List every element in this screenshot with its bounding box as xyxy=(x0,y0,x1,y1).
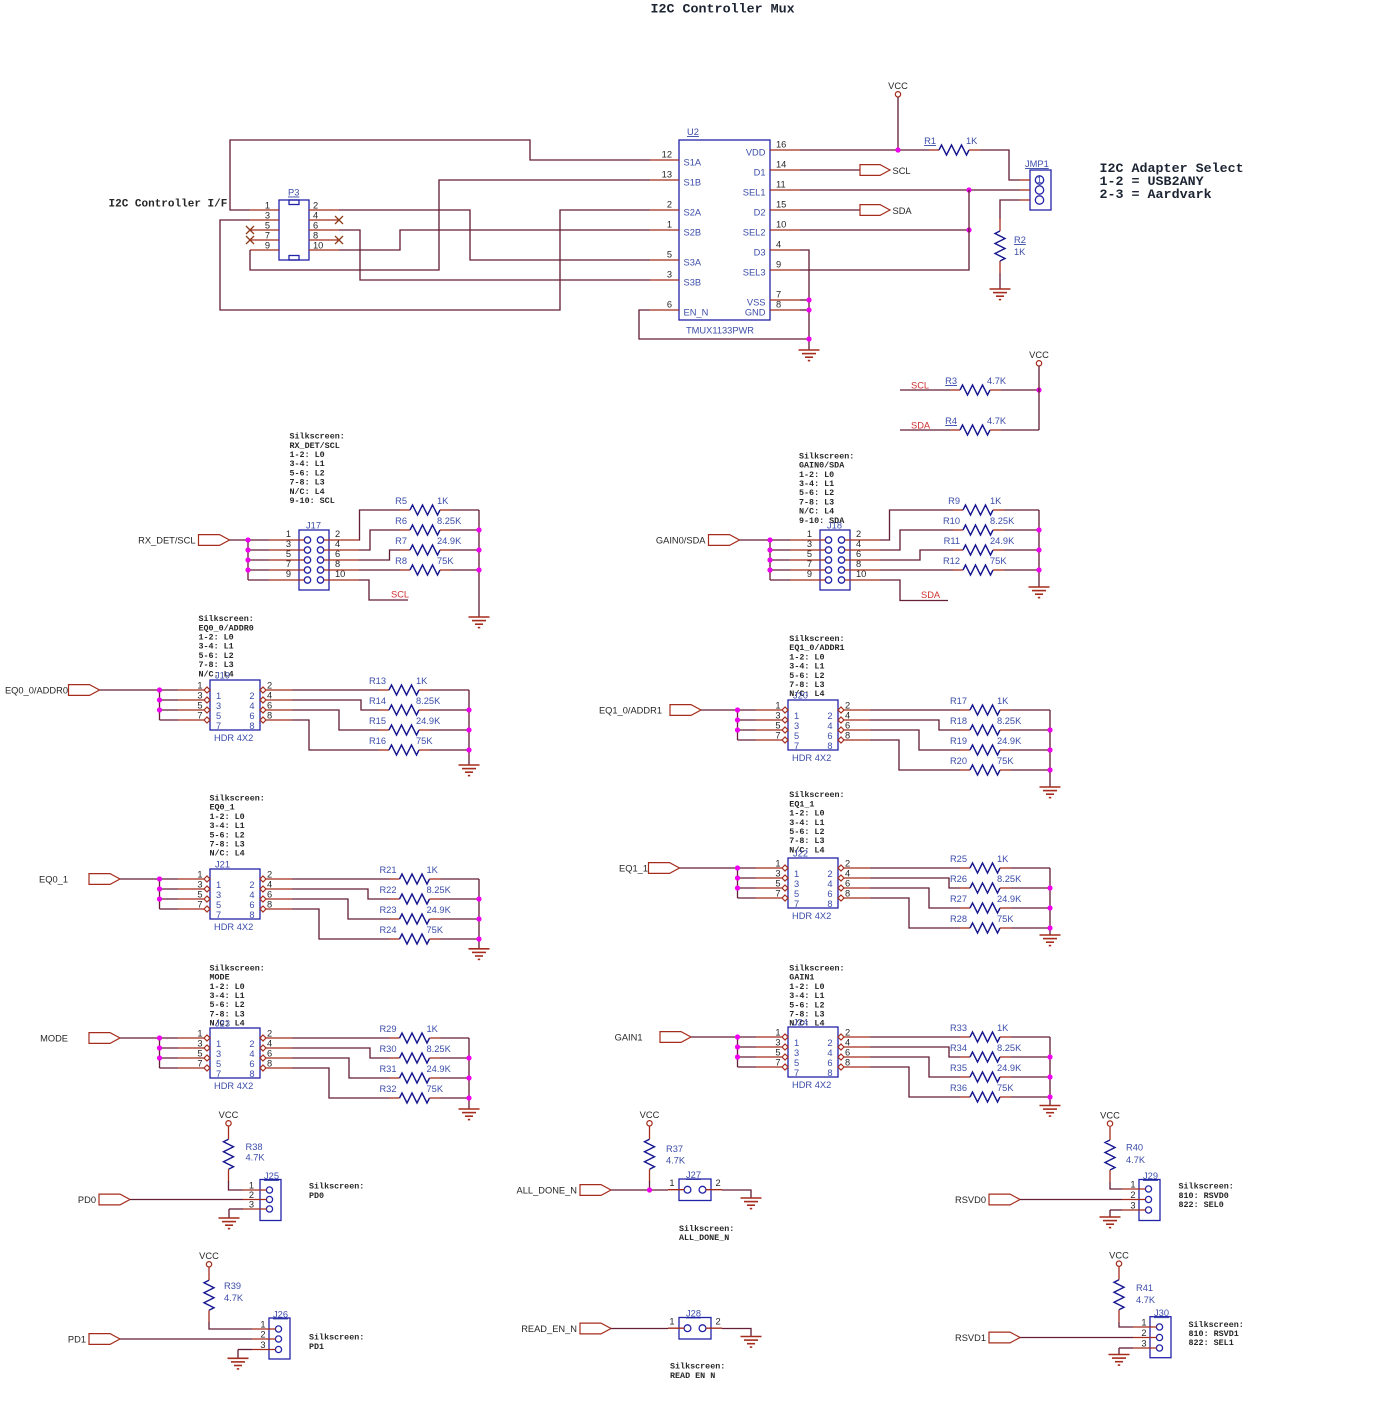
wire to J17.5 xyxy=(248,559,269,561)
svg-text:2: 2 xyxy=(249,880,254,890)
wire J19 resistor bus xyxy=(468,690,470,765)
svg-text:24.9K: 24.9K xyxy=(437,536,462,546)
pin stub J19.3 xyxy=(178,699,204,701)
wire J22.4 to R26 xyxy=(870,878,960,888)
wire J24 resistor bus xyxy=(1049,1037,1051,1106)
svg-text:VSS: VSS xyxy=(747,298,766,308)
wire R32 to bus xyxy=(441,1097,470,1099)
wire to J17.1 xyxy=(248,539,269,541)
pin stub U2.2 S2A xyxy=(650,209,679,211)
wire J18.10 SDA xyxy=(880,580,948,601)
svg-text:7: 7 xyxy=(197,711,202,721)
wire J23.6 to R31 xyxy=(292,1058,390,1078)
resistor R41 4.7K xyxy=(1114,1267,1156,1322)
connector J20 (HDR 4X2) xyxy=(775,691,850,764)
svg-text:R19: R19 xyxy=(950,736,967,746)
junction R7 xyxy=(476,547,481,552)
resistor R25 1K xyxy=(950,854,1011,873)
svg-text:EN_N: EN_N xyxy=(684,308,709,318)
svg-text:PD0: PD0 xyxy=(78,1195,96,1205)
svg-text:4: 4 xyxy=(267,1039,272,1049)
connector J26 (3-pin header) xyxy=(260,1310,290,1360)
svg-text:R14: R14 xyxy=(369,696,386,706)
svg-text:5: 5 xyxy=(197,701,202,711)
svg-text:SDA: SDA xyxy=(893,206,913,216)
svg-text:4: 4 xyxy=(845,1038,850,1048)
svg-text:7: 7 xyxy=(776,290,781,300)
power VCC R38 xyxy=(219,1110,239,1126)
svg-text:4: 4 xyxy=(267,880,272,890)
svg-text:6: 6 xyxy=(845,721,850,731)
junction VSS xyxy=(806,297,811,302)
wire VCC to VDD xyxy=(897,97,899,150)
pin stub J23.5 xyxy=(178,1057,204,1059)
svg-text:1K: 1K xyxy=(416,676,428,686)
wire R13 to bus xyxy=(430,689,469,691)
pin stub J21.3 xyxy=(178,888,204,890)
connector J24 (HDR 4X2) xyxy=(775,1018,850,1091)
svg-text:24.9K: 24.9K xyxy=(416,716,441,726)
wire to J21.7 xyxy=(160,908,179,910)
net flag SDA xyxy=(860,205,912,216)
wire to J22.7 xyxy=(738,897,757,899)
svg-text:24.9K: 24.9K xyxy=(997,894,1022,904)
resistor R22 8.25K xyxy=(379,885,451,904)
svg-text:1: 1 xyxy=(669,1178,674,1188)
pin stub J22.6 xyxy=(844,887,870,889)
junction J24 left 1 xyxy=(735,1034,740,1039)
port RSVD1 xyxy=(955,1332,1020,1343)
svg-text:13: 13 xyxy=(662,170,672,180)
junction R11 xyxy=(1036,547,1041,552)
silkscreen note J25 xyxy=(309,1182,364,1201)
wire J21 left bus xyxy=(159,879,161,909)
port GAIN1 xyxy=(615,1032,691,1043)
resistor R21 1K xyxy=(379,865,440,884)
svg-text:1K: 1K xyxy=(990,496,1002,506)
pin stub J19.4 xyxy=(266,699,292,701)
svg-text:MODE: MODE xyxy=(40,1034,68,1044)
svg-text:1: 1 xyxy=(807,529,812,539)
wire R26 to bus xyxy=(1011,887,1050,889)
svg-text:7: 7 xyxy=(775,1058,780,1068)
wire J21.4 to R22 xyxy=(292,889,390,899)
svg-text:1: 1 xyxy=(197,681,202,691)
junction J22 left 3 xyxy=(735,885,740,890)
svg-text:8.25K: 8.25K xyxy=(997,874,1022,884)
svg-text:1K: 1K xyxy=(427,865,439,875)
junction J21 left 3 xyxy=(157,896,162,901)
svg-text:8: 8 xyxy=(845,889,850,899)
pin stub J21.1 xyxy=(178,878,204,880)
svg-text:2: 2 xyxy=(716,1178,721,1188)
svg-text:I2C Controller Mux: I2C Controller Mux xyxy=(651,3,795,18)
resistor R1 1K xyxy=(924,136,980,155)
port PD1 xyxy=(68,1334,120,1345)
wire U2.D1 to SCL flag xyxy=(800,169,860,171)
pin stub P3.6 xyxy=(309,229,339,231)
wire J20.8 to R20 xyxy=(870,740,960,770)
pin stub J21.5 xyxy=(178,898,204,900)
ground J30 xyxy=(1109,1355,1130,1366)
wire SCL net xyxy=(900,389,950,391)
svg-text:2: 2 xyxy=(1130,1190,1135,1200)
port EQ1_1 xyxy=(619,863,679,874)
junction R36 xyxy=(1047,1094,1052,1099)
pin stub JMP1.3 xyxy=(1020,199,1030,201)
pin stub J27.2 xyxy=(706,1189,722,1191)
silkscreen note J29 xyxy=(1179,1182,1234,1210)
svg-text:8.25K: 8.25K xyxy=(997,1043,1022,1053)
svg-text:EQ0_1: EQ0_1 xyxy=(39,875,68,885)
pin stub J21.7 xyxy=(178,908,204,910)
wire to J18.3 xyxy=(770,549,790,551)
svg-text:5: 5 xyxy=(775,721,780,731)
svg-text:EQ1_0/ADDR1: EQ1_0/ADDR1 xyxy=(599,706,662,716)
wire J27.2 to ground xyxy=(722,1190,751,1198)
pin stub J24.8 xyxy=(844,1066,870,1068)
resistor R38 4.7K xyxy=(224,1126,266,1181)
wire RSVD1 to J30.2 xyxy=(1020,1337,1133,1339)
resistor R15 24.9K xyxy=(369,716,441,735)
pin stub J29.1 xyxy=(1122,1188,1146,1190)
svg-text:R16: R16 xyxy=(369,736,386,746)
junction J23 left 2 xyxy=(157,1045,162,1050)
wire J24.6 to R35 xyxy=(870,1057,960,1077)
connector J22 (HDR 4X2) xyxy=(775,849,850,922)
svg-text:1: 1 xyxy=(216,880,221,890)
pin stub P3.1 xyxy=(250,209,279,211)
svg-text:JMP1: JMP1 xyxy=(1025,159,1049,169)
resistor R9 1K xyxy=(948,496,1004,515)
pin stub J30.1 xyxy=(1133,1326,1157,1328)
power VCC U2 xyxy=(888,81,908,97)
svg-text:5: 5 xyxy=(216,711,221,721)
svg-text:R6: R6 xyxy=(395,516,407,526)
svg-text:1: 1 xyxy=(775,859,780,869)
svg-text:RSVD0: RSVD0 xyxy=(955,1195,986,1205)
silkscreen note J23 xyxy=(210,963,265,1028)
junction J24 left 2 xyxy=(735,1044,740,1049)
svg-text:R23: R23 xyxy=(379,905,396,915)
svg-text:3: 3 xyxy=(216,890,221,900)
pin stub J30.3 xyxy=(1133,1347,1157,1349)
svg-text:8: 8 xyxy=(845,731,850,741)
svg-text:R37: R37 xyxy=(666,1144,683,1154)
svg-text:8: 8 xyxy=(249,1069,254,1079)
wire J21.6 to R23 xyxy=(292,899,390,919)
wire to J20.5 xyxy=(738,729,757,731)
wire R21 to bus xyxy=(441,878,480,880)
svg-text:9: 9 xyxy=(265,241,270,251)
wire to J24.1 xyxy=(738,1036,757,1038)
wire to J18.5 xyxy=(770,559,790,561)
wire R10 to bus xyxy=(1004,529,1039,531)
wire RSVD0 to J29.2 xyxy=(1020,1199,1122,1201)
svg-text:R7: R7 xyxy=(395,536,407,546)
port RX_DET/SCL xyxy=(138,535,229,546)
svg-text:7: 7 xyxy=(216,721,221,731)
wire JMP1.3 to R2 xyxy=(1000,200,1020,219)
pin stub J20.7 xyxy=(756,739,782,741)
junction J20 left 3 xyxy=(735,727,740,732)
pin stub J23.3 xyxy=(178,1047,204,1049)
pin stub U2.9 SEL3 xyxy=(770,269,800,271)
svg-text:1: 1 xyxy=(265,201,270,211)
wire U2.VDD to R1 xyxy=(800,149,929,151)
wire to J21.5 xyxy=(160,898,179,900)
svg-text:VCC: VCC xyxy=(199,1251,219,1261)
connector J17 (5x2 header) xyxy=(286,521,346,591)
pin stub J19.5 xyxy=(178,709,204,711)
pin stub J17.1 xyxy=(269,539,304,541)
wire R8 to bus xyxy=(451,569,479,571)
junction SEL1 xyxy=(966,187,971,192)
wire R29 to bus xyxy=(441,1037,470,1039)
junction GND xyxy=(806,307,811,312)
junction J18 left 2 xyxy=(767,547,772,552)
resistor R18 8.25K xyxy=(950,716,1022,735)
svg-text:2: 2 xyxy=(1141,1328,1146,1338)
svg-text:2: 2 xyxy=(667,200,672,210)
svg-text:R24: R24 xyxy=(379,925,396,935)
svg-text:1: 1 xyxy=(669,1317,674,1327)
ground J25 xyxy=(219,1218,240,1229)
svg-text:VCC: VCC xyxy=(1109,1250,1129,1260)
svg-text:5: 5 xyxy=(775,879,780,889)
silkscreen note J22 xyxy=(789,790,844,855)
pin stub J17.6 xyxy=(324,559,359,561)
wire R11 to bus xyxy=(1004,549,1039,551)
svg-text:24.9K: 24.9K xyxy=(427,1064,452,1074)
connector J29 (3-pin header) xyxy=(1130,1171,1160,1221)
wire to J21.3 xyxy=(160,888,179,890)
silkscreen note J30 xyxy=(1189,1320,1244,1348)
pin stub J23.4 xyxy=(266,1047,292,1049)
pin stub J24.2 xyxy=(844,1036,870,1038)
power VCC R3/R4 xyxy=(1029,350,1049,366)
svg-text:HDR 4X2: HDR 4X2 xyxy=(214,922,253,932)
svg-text:R32: R32 xyxy=(379,1084,396,1094)
ground J26 xyxy=(228,1358,249,1369)
pin stub J18.2 xyxy=(845,539,880,541)
junction VDD xyxy=(895,147,900,152)
pin stub J28.1 xyxy=(668,1327,684,1329)
svg-text:5: 5 xyxy=(667,250,672,260)
pin stub JMP1.2 xyxy=(1020,189,1030,191)
wire J22 resistor bus xyxy=(1049,868,1051,935)
svg-text:RX_DET/SCL: RX_DET/SCL xyxy=(138,536,195,546)
resistor R5 1K xyxy=(395,496,451,515)
svg-text:1: 1 xyxy=(1037,175,1042,185)
wire J30.3 to ground xyxy=(1119,1347,1133,1349)
wire R35 to bus xyxy=(1011,1076,1050,1078)
resistor R23 24.9K xyxy=(379,905,451,924)
junction J23 left 1 xyxy=(157,1035,162,1040)
svg-text:6: 6 xyxy=(249,900,254,910)
wire J17.6 to R7 xyxy=(359,550,400,560)
svg-text:R39: R39 xyxy=(224,1281,241,1291)
wire U2.SEL3 to SEL net xyxy=(800,190,969,270)
wire J21.2 to R21 xyxy=(292,878,390,880)
pin stub J24.6 xyxy=(844,1056,870,1058)
junction R16 xyxy=(466,747,471,752)
power VCC R41 xyxy=(1109,1250,1129,1266)
svg-text:R21: R21 xyxy=(379,865,396,875)
pin stub J29.3 xyxy=(1122,1209,1146,1211)
resistor R8 75K xyxy=(395,556,454,575)
wire J17.10 SCL xyxy=(359,580,408,600)
wire R19 to bus xyxy=(1011,749,1050,751)
svg-text:PD1: PD1 xyxy=(68,1335,86,1345)
svg-text:S3A: S3A xyxy=(684,258,702,268)
pin stub U2.10 SEL2 xyxy=(770,229,800,231)
svg-text:6: 6 xyxy=(267,1049,272,1059)
wire EQ0_0/ADDR0 to J19 xyxy=(100,689,160,691)
pin stub J20.1 xyxy=(756,709,782,711)
wire EQ1_0/ADDR1 to J20 xyxy=(701,709,738,711)
svg-text:8.25K: 8.25K xyxy=(997,716,1022,726)
connector JMP1 xyxy=(1025,159,1051,210)
wire R18 to bus xyxy=(1011,729,1050,731)
svg-text:9-10: SCL: 9-10: SCL xyxy=(290,496,335,506)
junction R24 xyxy=(476,936,481,941)
wire RX_DET/SCL to J17 xyxy=(230,539,249,541)
svg-text:R27: R27 xyxy=(950,894,967,904)
no-connect X P3.8 xyxy=(335,236,343,244)
silkscreen note J24 xyxy=(789,964,844,1029)
svg-text:4: 4 xyxy=(827,1048,832,1058)
svg-text:7: 7 xyxy=(216,1069,221,1079)
svg-text:1: 1 xyxy=(667,220,672,230)
wire J18.4 to R10 xyxy=(880,530,953,550)
svg-text:GND: GND xyxy=(745,308,766,318)
svg-text:1K: 1K xyxy=(427,1024,439,1034)
resistor R40 4.7K xyxy=(1105,1127,1146,1182)
junction EN_N xyxy=(806,336,811,341)
wire to J23.5 xyxy=(160,1057,179,1059)
wire to J17.7 xyxy=(248,569,269,571)
svg-text:1: 1 xyxy=(249,1181,254,1191)
svg-text:5: 5 xyxy=(775,1048,780,1058)
svg-text:6: 6 xyxy=(827,731,832,741)
ground J21 bus xyxy=(469,949,490,960)
svg-text:R30: R30 xyxy=(379,1044,396,1054)
silkscreen note J28 xyxy=(670,1362,725,1381)
svg-text:4.7K: 4.7K xyxy=(246,1153,266,1163)
svg-text:3: 3 xyxy=(216,701,221,711)
wire J26.3 ground drop xyxy=(237,1350,239,1359)
wire R4 to VCC xyxy=(1001,429,1039,431)
no-connect X P3.5 xyxy=(246,226,254,234)
wire R2 to ground xyxy=(999,273,1001,289)
svg-text:R28: R28 xyxy=(950,914,967,924)
svg-text:RSVD1: RSVD1 xyxy=(955,1333,986,1343)
wire to J24.7 xyxy=(738,1066,757,1068)
pin stub J24.3 xyxy=(756,1046,782,1048)
svg-text:1K: 1K xyxy=(437,496,449,506)
svg-text:2: 2 xyxy=(260,1330,265,1340)
svg-text:1K: 1K xyxy=(966,136,978,146)
svg-text:11: 11 xyxy=(776,180,786,190)
pin stub U2.13 S1B xyxy=(650,179,679,181)
junction R27 xyxy=(1047,905,1052,910)
wire J17.4 to R6 xyxy=(359,530,400,550)
pin stub J19.6 xyxy=(266,709,292,711)
silkscreen note J21 xyxy=(210,794,265,859)
svg-text:1: 1 xyxy=(1141,1318,1146,1328)
pin stub J18.8 xyxy=(845,569,880,571)
resistor R36 75K xyxy=(950,1083,1014,1102)
wire R23 to bus xyxy=(441,918,480,920)
wire READ_EN_N to J28.1 xyxy=(611,1328,668,1330)
wire J18.8 to R12 xyxy=(880,569,953,571)
port EQ1_0/ADDR1 xyxy=(599,705,701,716)
svg-text:4: 4 xyxy=(313,211,318,221)
port MODE xyxy=(40,1033,120,1044)
svg-text:8.25K: 8.25K xyxy=(427,885,452,895)
pin stub J17.3 xyxy=(269,549,304,551)
svg-text:R1: R1 xyxy=(924,136,936,146)
junction R18 xyxy=(1047,727,1052,732)
pin stub J21.6 xyxy=(266,898,292,900)
svg-text:4: 4 xyxy=(249,1049,254,1059)
svg-text:3: 3 xyxy=(1130,1201,1135,1211)
wire J24.4 to R34 xyxy=(870,1047,960,1057)
wire R25 to bus xyxy=(1011,867,1050,869)
resistor R6 8.25K xyxy=(395,516,462,535)
resistor R39 4.7K xyxy=(204,1267,244,1322)
resistor R27 24.9K xyxy=(950,894,1022,913)
svg-text:2: 2 xyxy=(856,529,861,539)
svg-text:24.9K: 24.9K xyxy=(997,1063,1022,1073)
svg-text:3: 3 xyxy=(197,880,202,890)
ground J17 bus xyxy=(469,617,490,628)
pin stub J17.4 xyxy=(324,549,359,551)
pin stub J26.2 xyxy=(252,1338,276,1340)
svg-text:7: 7 xyxy=(794,899,799,909)
wire to J23.3 xyxy=(160,1047,179,1049)
svg-text:8.25K: 8.25K xyxy=(416,696,441,706)
svg-text:2: 2 xyxy=(335,529,340,539)
svg-text:16: 16 xyxy=(776,140,786,150)
svg-text:4.7K: 4.7K xyxy=(1126,1155,1146,1165)
pin stub P3.4 xyxy=(309,219,339,221)
svg-text:SEL1: SEL1 xyxy=(743,188,766,198)
svg-text:HDR 4X2: HDR 4X2 xyxy=(792,1080,831,1090)
svg-text:1: 1 xyxy=(286,529,291,539)
pin stub J20.5 xyxy=(756,729,782,731)
svg-text:8: 8 xyxy=(249,721,254,731)
svg-text:14: 14 xyxy=(776,160,786,170)
svg-text:R35: R35 xyxy=(950,1063,967,1073)
connector P3 xyxy=(265,188,324,261)
pin stub J18.5 xyxy=(790,559,825,561)
connector J30 (3-pin header) xyxy=(1141,1308,1171,1358)
junction R19 xyxy=(1047,747,1052,752)
wire U2.SEL2 xyxy=(800,229,969,231)
svg-text:ALL_DONE_N: ALL_DONE_N xyxy=(517,1186,577,1196)
wire U2.GND xyxy=(800,309,809,311)
wire J20.4 to R18 xyxy=(870,720,960,730)
svg-text:6: 6 xyxy=(267,890,272,900)
svg-text:8: 8 xyxy=(776,300,781,310)
svg-text:1: 1 xyxy=(260,1320,265,1330)
resistor R29 1K xyxy=(379,1024,440,1043)
port READ_EN_N xyxy=(521,1323,611,1334)
junction J18 left 4 xyxy=(767,567,772,572)
ground R2 xyxy=(990,289,1011,300)
